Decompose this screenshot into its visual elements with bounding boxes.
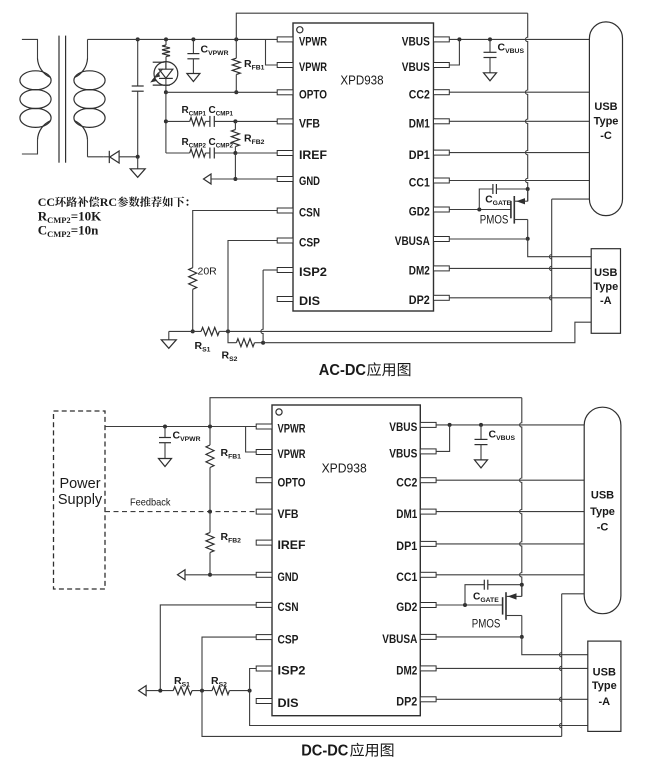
svg-text:DM1: DM1 (409, 119, 431, 131)
svg-text:VBUSA: VBUSA (382, 634, 417, 646)
svg-text:PMOS: PMOS (480, 213, 509, 227)
pin DP1 (right, U1) (409, 150, 450, 162)
wire VFB (235, 120, 277, 122)
svg-text:GD2: GD2 (396, 602, 417, 614)
wire OPTO line (166, 91, 278, 93)
wire USB-C ground vertical (DC-DC) (560, 594, 585, 737)
label CCMP1 (209, 105, 234, 118)
pin OPTO (left, U1 DC-DC) (256, 477, 305, 489)
junction rail RFB1 (234, 37, 238, 41)
power supply box (54, 411, 106, 589)
wire GND (211, 178, 278, 180)
svg-text:VBUS: VBUS (389, 449, 417, 461)
junction CGATE source node (DC-DC) (520, 583, 524, 587)
pin DM2 (right, U1) (409, 266, 450, 278)
svg-text:CSP: CSP (278, 634, 299, 646)
junction OPTO node (164, 90, 168, 94)
resistor RS2 (DC-DC) (212, 687, 229, 695)
pin VPWR (left, U1 DC-DC) (256, 424, 306, 436)
resistor RFB1 (DC-DC) (206, 427, 214, 512)
label CVPWR (DC-DC) (173, 430, 201, 444)
svg-text:20R: 20R (198, 266, 218, 278)
junction rail RFB1 (DC-DC) (208, 425, 212, 429)
wire VPWR rail (88, 38, 278, 40)
junction ISP2 sense node (248, 689, 252, 693)
svg-text:Type: Type (592, 680, 617, 692)
svg-text:GD2: GD2 (409, 207, 430, 219)
wire ground sense line (169, 330, 201, 332)
junction CSP sense node (200, 689, 204, 693)
wire ISP2 (DC-DC) (250, 669, 257, 691)
svg-text:PMOS: PMOS (472, 616, 501, 630)
pin VPWR (left, U1) (277, 37, 327, 49)
capacitor CVBUS (DC-DC) (475, 425, 488, 460)
capacitor CVBUS (484, 39, 497, 72)
wire VBUSA (DC-DC) (436, 636, 522, 638)
pin VPWR (left, U1 DC-DC) (256, 449, 306, 461)
wire VBUS2 tie (DC-DC) (436, 425, 450, 452)
junction CSP node (226, 329, 230, 333)
svg-text:VFB: VFB (278, 509, 299, 521)
pin CC2 (right, U1 DC-DC) (396, 477, 436, 489)
label CGATE (485, 195, 511, 208)
junction VBUS tie (DC-DC) (448, 423, 452, 427)
svg-text:CC2: CC2 (409, 89, 430, 101)
wire VPWR2 tie (266, 39, 278, 65)
wire feedback dashed (105, 511, 256, 513)
wire sense line RS1 to CSP node (219, 330, 228, 332)
wire CC1 to USB-C (DC-DC) (436, 574, 584, 576)
junction VFB node (233, 119, 237, 123)
wire VBUSA (449, 238, 527, 240)
label RFB1 (244, 58, 265, 72)
wire output node vertical (137, 39, 139, 86)
wire sense line (DC-DC) (146, 690, 173, 692)
svg-text:AC-DC: AC-DC (319, 362, 366, 379)
junction CGATE tap (477, 208, 481, 212)
junction PMOS drain VBUSA (526, 237, 530, 241)
svg-text:Supply: Supply (58, 492, 103, 508)
label 20R (198, 266, 218, 278)
wire sense line to USB-C ground (228, 330, 552, 332)
resistor RFB2 (231, 121, 239, 153)
connector J3 USB Type-C (DC-DC) (584, 407, 621, 614)
pin VBUSA (right, U1) (395, 236, 450, 248)
junction VFB node (DC-DC) (208, 510, 212, 514)
junction PMOS drain VBUSA (DC-DC) (520, 635, 524, 639)
resistor RFB1 (232, 39, 240, 92)
transformer T1 secondary winding (74, 39, 105, 156)
ground symbol sense line (161, 331, 176, 348)
svg-text:VPWR: VPWR (278, 424, 307, 436)
junction rail CVPWR (191, 37, 195, 41)
label RCMP2 (182, 137, 207, 150)
svg-text:DM2: DM2 (396, 666, 417, 678)
ground arrow GND (DC-DC) (178, 570, 186, 580)
svg-text:DP1: DP1 (396, 541, 418, 553)
wire GD2 to PMOS gate (449, 209, 511, 211)
ground arrow CVPWR (187, 74, 200, 82)
label RS2 (222, 350, 238, 364)
chip U1 XPD938 body (DC-DC) (272, 405, 420, 716)
wire GD2 to PMOS gate (DC-DC) (436, 604, 503, 606)
connector J1 USB Type-C (589, 22, 622, 216)
wire DP2 to Type-A (449, 297, 591, 299)
transistor Q1 PMOS (511, 189, 528, 239)
chip U1 XPD938 body (293, 23, 434, 311)
optocoupler U2 LED (150, 62, 178, 86)
svg-text:DIS: DIS (278, 698, 299, 710)
junction CVBUS (DC-DC) (479, 423, 483, 427)
pin VBUS (right, U1) (402, 37, 450, 49)
wire VPWR2 tie (DC-DC) (246, 427, 257, 453)
wire ISP2 with crossover (261, 270, 278, 343)
ground arrow GND pin (204, 174, 212, 184)
pin GD2 (right, U1 DC-DC) (396, 602, 436, 614)
wire DM2 to Type-A (449, 267, 591, 269)
junction output rail (136, 37, 140, 41)
wire CSP (DC-DC) (202, 637, 256, 691)
label CVPWR (201, 44, 229, 58)
label RFB1 (DC-DC) (221, 447, 242, 461)
label XPD938 (340, 73, 383, 88)
connector J2 USB Type-A (591, 249, 620, 334)
label CCMP2 (209, 137, 234, 150)
capacitor CGATE (479, 184, 527, 210)
label Feedback (130, 497, 171, 509)
svg-text:VPWR: VPWR (299, 37, 328, 49)
pin VBUS (right, U1 DC-DC) (389, 422, 436, 434)
pin CC2 (right, U1) (409, 89, 450, 101)
pin VPWR (left, U1) (277, 62, 327, 74)
wire DM1 to USB-C (449, 120, 589, 122)
label PMOS (480, 213, 509, 227)
wire CC2 to USB-C (449, 91, 589, 93)
junction VBUS tie (457, 37, 461, 41)
pin GND (left, U1) (277, 176, 320, 188)
wire over-top VPWR route (236, 13, 527, 39)
svg-text:USB: USB (591, 490, 614, 502)
wire VBUS2 tie (449, 39, 459, 65)
transformer T1 core (59, 36, 66, 163)
svg-text:-C: -C (597, 522, 609, 534)
svg-text:VPWR: VPWR (278, 449, 307, 461)
resistor RCMP2 (166, 149, 206, 157)
pin ISP2 (left, U1) (277, 267, 327, 279)
svg-text:OPTO: OPTO (278, 477, 306, 489)
wire DM2 to Type-A (DC-DC) (436, 667, 588, 669)
wire VBUS to USB-C (DC-DC) (436, 424, 584, 426)
svg-text:VPWR: VPWR (299, 62, 328, 74)
svg-text:XPD938: XPD938 (322, 461, 367, 476)
title DC-DC (301, 743, 393, 760)
svg-text:DM1: DM1 (396, 509, 418, 521)
svg-text:VBUS: VBUS (402, 62, 430, 74)
svg-text:VFB: VFB (299, 119, 320, 131)
wire IREF node down to GND line (234, 153, 236, 179)
capacitor CCMP1 (206, 116, 236, 127)
junction RFB1 OPTO line (234, 90, 238, 94)
svg-text:CC1: CC1 (396, 572, 418, 584)
pin CSN (left, U1 DC-DC) (256, 602, 298, 614)
wire DP1 to USB-C (DC-DC) (436, 543, 584, 545)
ground arrow sense (DC-DC) (139, 686, 147, 696)
label RFB2 (244, 133, 265, 147)
junction GND node (DC-DC) (208, 573, 212, 577)
wire supply rail (105, 426, 256, 428)
transistor Q2 PMOS (DC-DC) (503, 585, 522, 637)
junction ISP2 node (261, 341, 265, 345)
junction rail CVPWR2 (163, 425, 167, 429)
wire VBUS to USB-C (449, 38, 589, 40)
connector J4 USB Type-A (DC-DC) (588, 641, 621, 731)
note text CC loop compensation (38, 195, 189, 209)
svg-text:DIS: DIS (299, 296, 320, 308)
svg-text:Type: Type (594, 116, 619, 128)
label RS2 (DC-DC) (211, 675, 227, 689)
wire Type-A ground return (255, 322, 592, 343)
wire CSN (DC-DC) (160, 605, 256, 691)
resistor RFB2 (DC-DC) (206, 512, 214, 575)
wire USB-C ground vertical with crossovers (550, 199, 590, 331)
wire CSP node to USB-C ground line (202, 691, 562, 737)
svg-text:CSP: CSP (299, 238, 320, 250)
wire VBUSA to Type-A (528, 239, 592, 257)
svg-text:-C: -C (600, 130, 612, 142)
label XPD938 (DC-DC) (322, 461, 367, 476)
resistor RS1 (DC-DC) (173, 687, 192, 695)
wire ISP2 node to Type-A ground (250, 691, 588, 726)
chip pin-1 indicator (DC-DC) (276, 409, 282, 415)
svg-text:RC: RC (100, 195, 117, 209)
svg-text:USB: USB (594, 267, 617, 279)
pin IREF (left, U1) (277, 150, 327, 162)
pin DIS (left, U1) (277, 296, 320, 308)
wire DP2 to Type-A (DC-DC) (436, 698, 588, 700)
wire DM1 to USB-C (DC-DC) (436, 511, 584, 513)
svg-text:OPTO: OPTO (299, 90, 327, 102)
pin CC1 (right, U1) (409, 178, 450, 190)
capacitor CVPWR (DC-DC) (159, 427, 171, 459)
svg-text:GND: GND (278, 572, 299, 584)
wire RS1 to CSP node (DC-DC) (192, 690, 212, 692)
svg-text:VBUS: VBUS (389, 422, 417, 434)
wire secondary to diode (88, 156, 104, 158)
svg-text:ISP2: ISP2 (278, 666, 306, 678)
pin IREF (left, U1 DC-DC) (256, 540, 305, 552)
svg-text:VBUSA: VBUSA (395, 236, 430, 248)
pin CSN (left, U1) (277, 208, 320, 220)
svg-text:Power: Power (59, 476, 100, 492)
wire IREF (235, 152, 277, 154)
pin DM2 (right, U1 DC-DC) (396, 666, 436, 678)
svg-text:DC-DC: DC-DC (301, 743, 348, 760)
svg-text:CSN: CSN (299, 208, 320, 220)
wire PMOS source vertical with crossovers (526, 13, 528, 201)
svg-text:CSN: CSN (278, 602, 299, 614)
junction rail opto-resistor (164, 37, 168, 41)
svg-text:Type: Type (590, 506, 615, 518)
label CVBUS (DC-DC) (489, 429, 516, 443)
pin VBUSA (right, U1 DC-DC) (382, 634, 436, 646)
svg-text:DP1: DP1 (409, 150, 431, 162)
capacitor C1 output (132, 86, 144, 91)
note text CCMP2 value (38, 223, 99, 240)
pin GND (left, U1 DC-DC) (256, 572, 298, 584)
wire DP1 to USB-C (449, 152, 589, 154)
wire GND (DC-DC) (185, 574, 256, 576)
label CVBUS (498, 42, 525, 56)
wire RS2 to ISP2 node (255, 342, 264, 344)
label PMOS (DC-DC) (472, 616, 501, 630)
pin DP2 (right, U1 DC-DC) (396, 697, 436, 709)
wire CSP (228, 241, 278, 332)
resistor RS2 (236, 339, 254, 347)
wire opto node down (165, 92, 167, 153)
label CGATE (DC-DC) (473, 591, 499, 604)
svg-text:-A: -A (598, 696, 610, 708)
junction IREF node (233, 151, 237, 155)
capacitor CCMP2 (206, 148, 236, 159)
resistor RCMP1 (166, 117, 206, 125)
ground arrow CVBUS (DC-DC) (475, 460, 488, 468)
junction CVBUS (488, 37, 492, 41)
title AC-DC (319, 362, 411, 379)
svg-text:Type: Type (593, 281, 618, 293)
wire CSP node to RS2 (228, 331, 236, 342)
pin DIS (left, U1 DC-DC) (256, 698, 299, 710)
pin CC1 (right, U1 DC-DC) (396, 572, 436, 584)
capacitor CGATE (DC-DC) (465, 580, 522, 605)
pin VFB (left, U1) (277, 119, 320, 131)
svg-text:Feedback: Feedback (130, 497, 171, 509)
wire CC1 to USB-C (449, 180, 589, 182)
pin DM1 (right, U1 DC-DC) (396, 509, 436, 521)
diode D1 (104, 151, 138, 163)
wire VBUSA to Type-A (DC-DC) (522, 637, 588, 655)
capacitor CVPWR (187, 39, 199, 73)
wire over-top route (DC-DC) (210, 398, 522, 427)
pin VBUS (right, U1) (402, 62, 450, 74)
pin DM1 (right, U1) (409, 119, 450, 131)
svg-text:USB: USB (593, 666, 616, 678)
wire CC2 to USB-C (DC-DC) (436, 479, 584, 481)
svg-text:ISP2: ISP2 (299, 267, 327, 279)
resistor R1 opto series (162, 39, 170, 61)
wire CSN (193, 211, 278, 268)
label RCMP1 (182, 105, 207, 118)
svg-text:CC2: CC2 (396, 477, 417, 489)
pin ISP2 (left, U1 DC-DC) (256, 666, 305, 678)
pin VBUS (right, U1 DC-DC) (389, 449, 436, 461)
ground (130, 169, 145, 178)
transformer T1 primary winding (20, 39, 51, 154)
junction CSN sense node (158, 689, 162, 693)
svg-text:-A: -A (600, 295, 612, 307)
svg-text:DP2: DP2 (396, 697, 417, 709)
label RS1 (195, 340, 211, 354)
svg-text:DM2: DM2 (409, 266, 430, 278)
svg-text:IREF: IREF (278, 540, 306, 552)
ground arrow CVPWR (DC-DC) (159, 459, 172, 467)
resistor 20R (189, 268, 197, 332)
svg-text:USB: USB (594, 101, 617, 113)
ground arrow CVBUS (484, 73, 497, 81)
svg-text:CC1: CC1 (409, 178, 431, 190)
junction 20R ground line (191, 329, 195, 333)
svg-text:XPD938: XPD938 (340, 73, 383, 88)
svg-text:GND: GND (299, 176, 320, 188)
svg-text:VBUS: VBUS (402, 37, 430, 49)
svg-text:IREF: IREF (299, 150, 327, 162)
svg-text:DP2: DP2 (409, 295, 430, 307)
wire RS2 to ISP2 node (DC-DC) (229, 690, 249, 692)
note text RCMP2 value (38, 209, 102, 226)
junction GND node (233, 177, 237, 181)
pin DP1 (right, U1 DC-DC) (396, 541, 436, 553)
pin OPTO (left, U1) (277, 90, 327, 102)
pin VFB (left, U1 DC-DC) (256, 509, 298, 521)
wire PMOS source vertical (DC-DC) (520, 398, 522, 597)
junction compensation node (164, 119, 168, 123)
pin CSP (left, U1 DC-DC) (256, 634, 299, 646)
resistor RS1 (201, 327, 219, 335)
label RS1 (DC-DC) (174, 675, 190, 689)
svg-text:CC: CC (38, 195, 55, 209)
pin CSP (left, U1) (277, 238, 320, 250)
wire opto cathode to OPTO (165, 86, 167, 92)
junction diode-output (136, 155, 140, 159)
pin DP2 (right, U1) (409, 295, 450, 307)
chip U1 pin-1 indicator (297, 27, 303, 33)
label RFB2 (DC-DC) (221, 531, 242, 545)
pin GD2 (right, U1) (409, 207, 450, 219)
wire to ground (137, 157, 139, 169)
junction CGATE source node (526, 187, 530, 191)
junction CGATE tap (DC-DC) (463, 603, 467, 607)
